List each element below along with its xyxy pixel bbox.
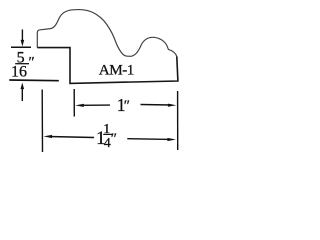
svg-text:16: 16	[11, 64, 27, 81]
svg-text:″: ″	[111, 131, 117, 147]
svg-text:″: ″	[29, 54, 35, 70]
svg-text:AM-1: AM-1	[99, 61, 135, 78]
svg-text:″: ″	[124, 98, 130, 114]
